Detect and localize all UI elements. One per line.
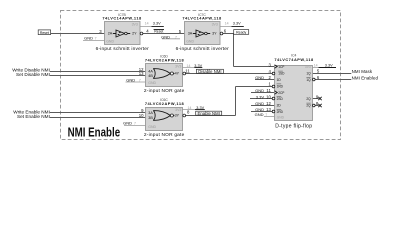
svg-text:14: 14 — [314, 64, 318, 68]
svg-text:3Y: 3Y — [175, 114, 180, 118]
svg-text:2CP: 2CP — [278, 91, 284, 95]
svg-text:Enable NMI: Enable NMI — [198, 111, 220, 116]
svg-text:13: 13 — [266, 107, 271, 112]
svg-text:3V3: 3V3 — [212, 22, 218, 26]
svg-text:3.3V: 3.3V — [153, 22, 161, 26]
svg-text:Set Enable NMI: Set Enable NMI — [17, 114, 50, 119]
svg-text:3B: 3B — [148, 116, 153, 120]
svg-text:3.3V: 3.3V — [194, 64, 202, 68]
svg-text:74LVC14APW,118: 74LVC14APW,118 — [102, 15, 142, 20]
svg-text:D-type flip-flop: D-type flip-flop — [275, 124, 312, 130]
svg-text:2Q: 2Q — [306, 104, 311, 108]
svg-text:3.3V: 3.3V — [325, 63, 333, 67]
svg-text:14: 14 — [225, 22, 229, 26]
svg-text:4A: 4A — [148, 69, 153, 73]
svg-text:74LVC02APW,118: 74LVC02APW,118 — [145, 57, 185, 62]
svg-text:NMI Mask: NMI Mask — [352, 69, 373, 74]
svg-text:Disable NMI: Disable NMI — [198, 69, 221, 74]
svg-text:7: 7 — [134, 121, 136, 125]
svg-text:Reset: Reset — [154, 30, 163, 34]
svg-text:7: 7 — [95, 36, 97, 40]
svg-text:11: 11 — [185, 68, 190, 73]
svg-text:1D: 1D — [277, 78, 282, 82]
svg-text:2SD: 2SD — [277, 97, 284, 101]
svg-text:GND: GND — [126, 77, 135, 82]
svg-text:GND: GND — [255, 112, 264, 117]
svg-text:GND: GND — [255, 88, 264, 93]
svg-text:GND: GND — [255, 75, 264, 80]
svg-text:11: 11 — [266, 88, 271, 93]
svg-text:2-input NOR gate: 2-input NOR gate — [144, 88, 185, 94]
svg-text:2Q: 2Q — [306, 97, 311, 101]
svg-text:NMI Enable: NMI Enable — [68, 126, 121, 140]
svg-text:Ready: Ready — [236, 30, 246, 34]
svg-text:GND: GND — [148, 81, 156, 85]
svg-text:3A: 3A — [148, 111, 153, 115]
svg-text:GND: GND — [186, 39, 194, 43]
svg-text:3V3: 3V3 — [132, 22, 138, 26]
svg-text:GND: GND — [161, 34, 170, 39]
svg-text:74LVC74APW,118: 74LVC74APW,118 — [274, 57, 314, 62]
svg-text:10: 10 — [139, 113, 144, 118]
svg-text:4Y: 4Y — [175, 72, 180, 76]
svg-text:4B: 4B — [148, 74, 153, 78]
svg-text:3V3: 3V3 — [175, 64, 181, 68]
svg-text:GND: GND — [106, 39, 114, 43]
svg-text:Set Disable NMI: Set Disable NMI — [16, 72, 50, 77]
svg-text:NMI Enabled: NMI Enabled — [352, 76, 379, 81]
svg-text:1CP: 1CP — [278, 65, 284, 69]
svg-text:3V3: 3V3 — [175, 108, 181, 112]
svg-text:GND: GND — [123, 120, 132, 125]
svg-text:2D: 2D — [277, 104, 282, 108]
svg-text:GND: GND — [277, 116, 285, 120]
svg-text:12: 12 — [266, 101, 271, 106]
svg-text:3Y: 3Y — [212, 32, 217, 36]
svg-text:GND: GND — [148, 125, 156, 129]
svg-text:2-input NOR gate: 2-input NOR gate — [144, 132, 185, 138]
svg-text:13: 13 — [139, 71, 144, 76]
svg-text:3.3V: 3.3V — [196, 106, 204, 110]
svg-text:3A: 3A — [188, 32, 193, 36]
svg-text:3V3: 3V3 — [305, 65, 311, 69]
svg-text:6-input schmitt inverter: 6-input schmitt inverter — [96, 46, 150, 52]
svg-text:1Q: 1Q — [306, 78, 311, 82]
svg-text:7: 7 — [139, 78, 141, 82]
svg-text:2RD: 2RD — [277, 110, 284, 114]
svg-text:1RD: 1RD — [277, 84, 284, 88]
svg-text:2A: 2A — [108, 32, 113, 36]
svg-text:74LVC02APW,118: 74LVC02APW,118 — [145, 101, 185, 106]
svg-text:10: 10 — [266, 94, 271, 99]
svg-text:14: 14 — [145, 22, 149, 26]
svg-text:Reset: Reset — [40, 31, 49, 35]
svg-text:GND: GND — [255, 107, 264, 112]
svg-text:3.3V: 3.3V — [256, 94, 265, 99]
svg-text:7: 7 — [175, 35, 177, 39]
svg-text:1Q: 1Q — [306, 72, 311, 76]
svg-text:GND: GND — [84, 35, 93, 40]
svg-text:74LVC14APW,118: 74LVC14APW,118 — [182, 15, 222, 20]
svg-text:GND: GND — [255, 101, 264, 106]
svg-text:6-input schmitt inverter: 6-input schmitt inverter — [176, 46, 230, 52]
svg-text:2Y: 2Y — [132, 32, 137, 36]
svg-text:3.3V: 3.3V — [233, 22, 241, 26]
svg-text:1SD: 1SD — [278, 72, 285, 76]
